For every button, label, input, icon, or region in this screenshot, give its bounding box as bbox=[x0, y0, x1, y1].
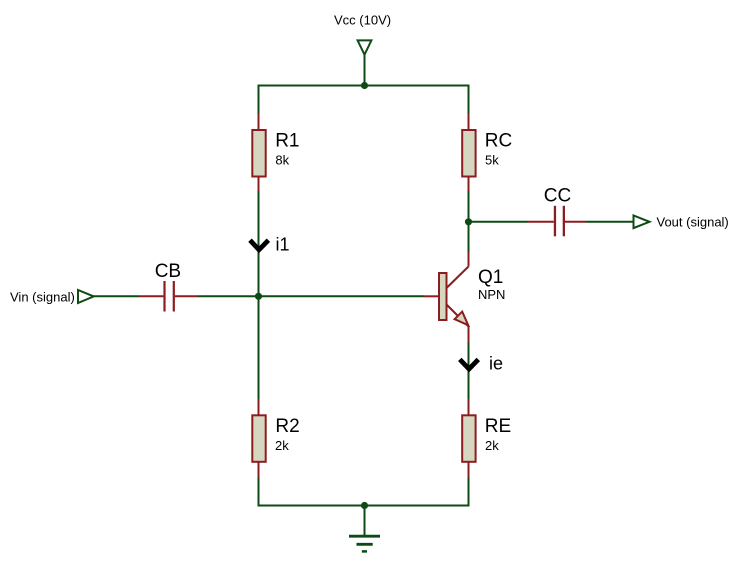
svg-text:Vout (signal): Vout (signal) bbox=[657, 215, 729, 230]
current arrow i1 bbox=[250, 240, 268, 250]
svg-text:RE: RE bbox=[485, 416, 511, 437]
ground bbox=[349, 506, 380, 552]
power symbol Vcc bbox=[358, 40, 372, 54]
label Vcc (10V) bbox=[334, 13, 391, 28]
wire Vin terminal to CB bbox=[94, 295, 139, 297]
svg-text:5k: 5k bbox=[485, 153, 499, 168]
label NPN bbox=[478, 287, 505, 302]
wire CC to Vout terminal bbox=[586, 221, 634, 223]
capacitor CC bbox=[528, 206, 586, 237]
label R1 bbox=[275, 131, 299, 152]
svg-text:R2: R2 bbox=[275, 416, 299, 437]
resistor R2 bbox=[252, 399, 265, 477]
wire base node to transistor bbox=[259, 295, 425, 297]
svg-text:2k: 2k bbox=[275, 438, 289, 453]
terminal Vin bbox=[78, 290, 94, 303]
value 2k bbox=[275, 438, 289, 453]
svg-text:2k: 2k bbox=[485, 438, 499, 453]
junction collector node bbox=[465, 218, 472, 225]
wire emitter to RE bbox=[468, 343, 470, 400]
wire RE to bottom bus bbox=[468, 477, 470, 507]
wire collector node to CC bbox=[469, 221, 529, 223]
junction top node bbox=[361, 82, 368, 89]
svg-text:i1: i1 bbox=[276, 235, 290, 255]
label CC bbox=[544, 186, 571, 207]
wire left column lower (base node to R2) bbox=[258, 296, 260, 399]
junction base node bbox=[255, 293, 262, 300]
transistor Q1 bbox=[424, 252, 469, 343]
label RE bbox=[485, 416, 511, 437]
wire RC to collector node bbox=[468, 191, 470, 253]
value 5k bbox=[485, 153, 499, 168]
wire CB to base node bbox=[198, 295, 259, 297]
label Vin (signal) bbox=[10, 290, 75, 305]
wire left column mid (R1 to base node) bbox=[258, 191, 260, 296]
svg-text:ie: ie bbox=[489, 354, 503, 374]
current arrow ie bbox=[460, 359, 479, 369]
svg-text:Vcc (10V): Vcc (10V) bbox=[334, 13, 391, 28]
wire right column upper (top bus to RC) bbox=[468, 86, 470, 115]
wire R2 to bottom bus bbox=[258, 477, 260, 507]
capacitor CB bbox=[139, 281, 198, 312]
wire left column upper (top bus to R1) bbox=[258, 86, 260, 115]
svg-text:8k: 8k bbox=[275, 153, 289, 168]
label ie bbox=[489, 354, 503, 374]
svg-text:RC: RC bbox=[485, 131, 512, 152]
label Vout (signal) bbox=[657, 215, 729, 230]
wire top horizontal bus bbox=[258, 85, 470, 87]
junction ground node bbox=[361, 502, 368, 509]
value 8k bbox=[275, 153, 289, 168]
resistor RE bbox=[462, 399, 475, 477]
label RC bbox=[485, 131, 512, 152]
label R2 bbox=[275, 416, 299, 437]
label CB bbox=[155, 261, 181, 282]
wire power stub bbox=[364, 55, 366, 86]
resistor RC bbox=[462, 114, 475, 192]
terminal Vout bbox=[634, 216, 650, 229]
svg-text:R1: R1 bbox=[275, 131, 299, 152]
label Q1 bbox=[478, 267, 503, 288]
svg-text:CB: CB bbox=[155, 261, 181, 282]
svg-text:CC: CC bbox=[544, 186, 571, 207]
svg-text:Q1: Q1 bbox=[478, 267, 503, 288]
resistor R1 bbox=[252, 114, 265, 192]
value 2k bbox=[485, 438, 499, 453]
svg-text:Vin (signal): Vin (signal) bbox=[10, 290, 75, 305]
wire bottom horizontal bus bbox=[258, 505, 470, 507]
label i1 bbox=[276, 235, 290, 255]
svg-text:NPN: NPN bbox=[478, 287, 505, 302]
